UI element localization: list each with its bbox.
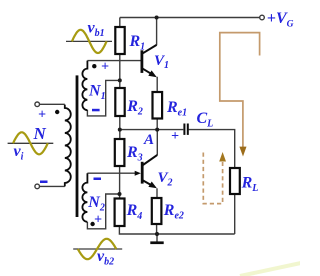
svg-text:+: + (171, 129, 179, 144)
label input minus (40, 181, 48, 184)
polarity dot N (55, 110, 59, 114)
wire N1 bottom return (87, 80, 119, 116)
label N2 minus (94, 178, 102, 181)
terminal input top (35, 102, 40, 107)
svg-text:+: + (267, 10, 276, 27)
current path solid (tan) (220, 33, 260, 147)
wire input top lead (40, 103, 65, 105)
vb2 sine (78, 239, 117, 259)
transistor V1 (142, 45, 157, 74)
winding N2 (82, 173, 87, 222)
wire R3 to R4 (119, 166, 121, 199)
current arrow up (dashed loop) (219, 152, 226, 162)
terminal +VG (260, 15, 265, 20)
resistor R2 (115, 88, 124, 116)
resistor R1 (115, 27, 124, 54)
current arrow down at RL (239, 147, 246, 157)
wire top rail to +VG (120, 17, 260, 19)
svg-text:+: + (38, 107, 46, 122)
vb1 sine (72, 30, 107, 53)
current loop dashed (tan) (203, 153, 222, 204)
capacitor CL (183, 124, 185, 135)
transformer core (76, 75, 79, 217)
V2 base current arrow (135, 171, 141, 176)
wire Re1 stubs (156, 77, 158, 130)
vi sine (13, 132, 48, 154)
transistor V2 (142, 155, 157, 185)
svg-text:N: N (33, 124, 47, 143)
winding N (primary) (65, 105, 71, 187)
vb1 axis (66, 40, 112, 42)
wire R1 top stub (119, 18, 121, 28)
vb2 axis (73, 248, 122, 250)
wire V1 collector vertical (156, 18, 158, 46)
winding N1 (82, 61, 87, 111)
svg-text:+: + (101, 60, 109, 75)
terminal input bottom (35, 184, 40, 189)
junction dots (155, 16, 159, 20)
wire V2 base from N2 (87, 172, 135, 174)
wire bottom rail (119, 194, 234, 234)
wire V1 base from N1 (87, 60, 140, 62)
wire input bottom lead (40, 185, 65, 187)
wire R1 to R2 (119, 54, 121, 88)
resistor Re2 (152, 198, 162, 224)
resistor RL (230, 168, 240, 194)
wire CL to RL top (189, 130, 235, 168)
polarity dot N1 (92, 64, 96, 68)
wire ground stub (156, 234, 158, 242)
resistor Re1 (153, 92, 163, 119)
ground (150, 241, 163, 244)
resistor R3 (115, 139, 125, 166)
wire V2 collector vertical (156, 130, 158, 155)
wire V2 emitter stub (156, 188, 158, 198)
svg-text:A: A (143, 132, 154, 148)
label N1 minus (92, 109, 100, 112)
highlight mark bottom right (240, 263, 301, 276)
wire N2 bottom return (87, 194, 119, 229)
wire node A row left (120, 129, 184, 131)
resistor R4 (115, 199, 125, 227)
wire R2 to R3 (119, 116, 121, 139)
polarity dot N2 (90, 222, 94, 226)
vi axis (8, 142, 54, 144)
svg-text:+: + (94, 213, 102, 228)
